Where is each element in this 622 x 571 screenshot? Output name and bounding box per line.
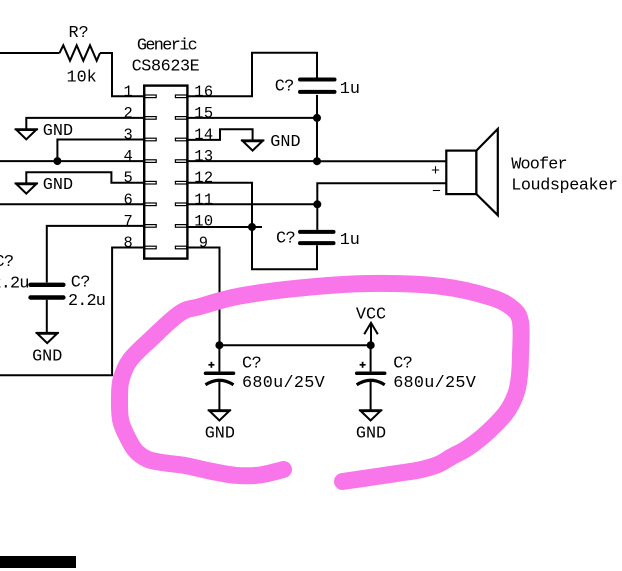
svg-text:13: 13 — [194, 148, 213, 166]
pink highlight ellipse annotation — [119, 283, 521, 481]
capacitor C? 680u/25V left lead — [218, 345, 220, 371]
svg-text:+: + — [431, 163, 440, 180]
wire pin12 down — [187, 183, 317, 270]
wire pin16 to C1 — [187, 53, 317, 97]
svg-text:8: 8 — [123, 234, 133, 252]
svg-text:GND: GND — [43, 176, 73, 195]
svg-text:12: 12 — [194, 169, 213, 187]
wire node to speaker plus — [317, 160, 447, 162]
capacitor C? 1u top plates — [300, 80, 335, 92]
svg-text:GND: GND — [32, 347, 62, 366]
svg-text:C?: C? — [276, 229, 295, 248]
svg-text:C?: C? — [242, 354, 261, 373]
svg-text:11: 11 — [194, 191, 213, 209]
wire R1 to pin1 — [100, 53, 145, 96]
wire pin11 — [187, 203, 317, 205]
power symbol VCC arrow — [370, 324, 372, 345]
svg-text:680u/25V: 680u/25V — [393, 374, 476, 393]
wire pin8 down and left — [0, 248, 145, 376]
IC U1 body — [144, 86, 187, 259]
wire C 2.2u to GND — [46, 300, 48, 333]
svg-text:Generic: Generic — [137, 36, 197, 55]
svg-text:GND: GND — [356, 425, 386, 444]
wire pin7 to C 2.2u — [47, 226, 145, 283]
svg-text:CS8623E: CS8623E — [132, 57, 200, 76]
wire VCC rail — [220, 344, 371, 346]
ground symbol GND4 — [241, 140, 264, 150]
wire right cap to GND — [370, 381, 372, 411]
svg-text:Loudspeaker: Loudspeaker — [511, 177, 617, 196]
svg-text:C?: C? — [71, 274, 90, 293]
junction VCC rail right — [367, 341, 375, 349]
svg-text:7: 7 — [123, 212, 133, 230]
svg-text:R?: R? — [69, 24, 89, 43]
junction C1/pin15 — [313, 114, 321, 122]
ground symbol GND2 — [15, 183, 38, 193]
wire speaker minus — [317, 183, 446, 230]
speaker LS1 body — [446, 129, 498, 215]
svg-text:Woofer: Woofer — [511, 155, 567, 174]
capacitor C? 680u/25V right plates — [357, 371, 385, 375]
svg-text:10: 10 — [194, 212, 213, 230]
svg-text:VCC: VCC — [356, 306, 386, 325]
capacitor C? 1u bottom plates — [300, 232, 334, 243]
IC U1 pin notches — [145, 95, 187, 249]
svg-text:4: 4 — [123, 148, 133, 166]
capacitor C? 680u/25V left plates — [206, 371, 234, 375]
wire pin10 — [187, 226, 262, 228]
svg-text:15: 15 — [194, 104, 213, 122]
svg-text:GND: GND — [205, 425, 235, 444]
wire C1 bottom to node — [316, 95, 318, 161]
IC pin numbers — [123, 83, 213, 252]
svg-text:10k: 10k — [67, 68, 97, 87]
wire pin13 — [187, 160, 317, 162]
svg-text:GND: GND — [270, 133, 300, 152]
wire pin5 to GND — [26, 172, 145, 183]
svg-text:C?: C? — [393, 354, 412, 373]
wire pin3 — [57, 140, 145, 162]
wire left cap to GND — [218, 381, 220, 411]
wire pin2 to GND — [26, 118, 145, 129]
wire input to R1 — [0, 52, 60, 54]
plus sign left cap — [208, 362, 214, 368]
ground symbol GND1 — [15, 129, 38, 139]
svg-text:−: − — [432, 183, 441, 200]
junction VCC rail left — [215, 341, 223, 349]
svg-text:C?: C? — [0, 253, 14, 272]
svg-text:2.2u: 2.2u — [68, 292, 105, 311]
ground symbol GND3 — [36, 333, 59, 343]
svg-text:1u: 1u — [340, 80, 360, 99]
svg-text:14: 14 — [194, 126, 213, 144]
resistor R? 10k — [60, 45, 101, 60]
junction dots — [53, 114, 374, 349]
capacitor C? 2.2u plates — [31, 285, 64, 298]
wire pin14 to GND — [187, 129, 253, 140]
svg-text:16: 16 — [194, 83, 213, 101]
svg-text:1: 1 — [123, 83, 133, 101]
junction pin11/minus — [313, 200, 321, 208]
ground symbol GND6 — [359, 410, 382, 420]
svg-text:9: 9 — [199, 234, 209, 252]
svg-text:C?: C? — [275, 77, 294, 96]
svg-text:1u: 1u — [340, 231, 360, 250]
wire pin6 — [0, 203, 145, 205]
wire pin4 — [0, 160, 145, 162]
svg-text:2: 2 — [123, 104, 133, 122]
wire pin9 to VCC rail — [187, 248, 220, 346]
svg-text:6: 6 — [123, 191, 133, 209]
junction pin3/pin4 — [53, 157, 61, 165]
junction pin13/plus — [313, 157, 321, 165]
svg-text:5: 5 — [123, 169, 133, 187]
plus sign right cap — [360, 362, 366, 368]
junction pin10/pin12 — [248, 223, 256, 231]
svg-text:GND: GND — [43, 122, 73, 141]
redaction bar bottom left — [0, 556, 76, 568]
svg-text:3: 3 — [123, 126, 133, 144]
ground symbol GND5 — [208, 410, 231, 420]
wire pin15 — [187, 117, 317, 119]
capacitor C? 680u/25V right lead — [370, 345, 372, 371]
svg-text:680u/25V: 680u/25V — [242, 374, 325, 393]
svg-text:2.2u: 2.2u — [0, 275, 29, 294]
